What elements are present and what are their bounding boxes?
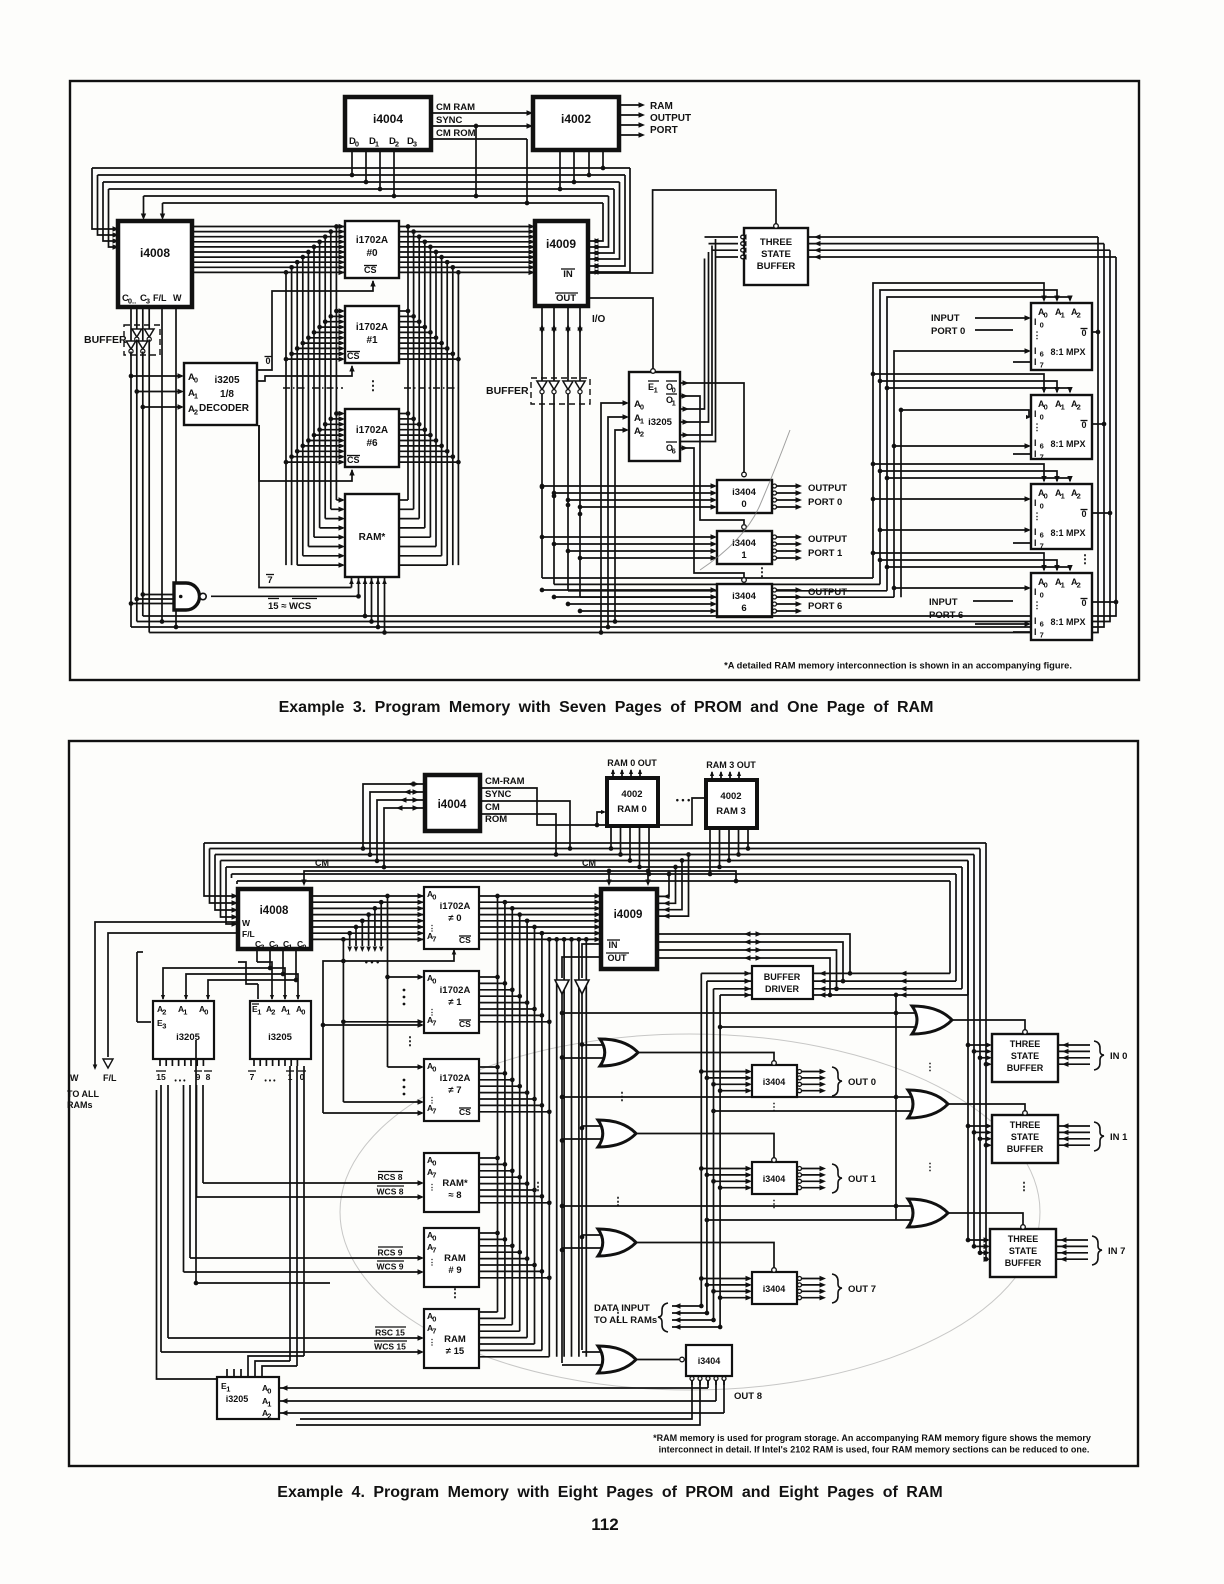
svg-text:OUT 7: OUT 7 — [848, 1284, 876, 1295]
wire rail WCS8 — [196, 1085, 198, 1197]
wire SYNC — [431, 125, 533, 127]
RAM bank 4002 RAM 3 — [706, 780, 757, 828]
wire i4004 D1 ex4 — [370, 792, 425, 855]
svg-text:≠ 7: ≠ 7 — [448, 1085, 461, 1096]
wire TSB right line 1 — [808, 243, 1104, 245]
wire i4009 OUT to E1 — [588, 298, 653, 369]
wire decoder0 rail bend — [255, 1361, 290, 1369]
wire i3404 OUT1 out 2 — [798, 1179, 802, 1183]
wire rail to 1702A#1 row 3 — [320, 326, 343, 328]
svg-text:0: 0 — [432, 1065, 436, 1074]
svg-text:PORT 6: PORT 6 — [929, 610, 963, 621]
wire left rail 7 — [296, 262, 298, 565]
wire RAM0 stub 3 — [639, 826, 641, 867]
wire bottom long line 1 — [143, 257, 1116, 616]
wire right rail 2 — [418, 237, 420, 519]
wire i3404 OUT0 out 1 — [798, 1076, 802, 1080]
i3205 bottom top pin 2 — [240, 1369, 242, 1377]
wire RAM out row 5 — [399, 546, 436, 548]
wire i4002 out 4 — [619, 134, 641, 136]
wire rail to 1702A#1 row 4 — [314, 331, 343, 333]
svg-text:112: 112 — [591, 1515, 618, 1534]
wire RAM8 out 1 — [479, 1163, 505, 1165]
wire PROM7 out 3 — [479, 1085, 520, 1087]
wire CM stub RAM0 — [597, 812, 604, 825]
svg-text:CM ROM: CM ROM — [436, 128, 476, 139]
svg-text:• • •: • • • — [264, 1078, 276, 1085]
svg-text:1: 1 — [375, 140, 379, 149]
wire MPX4 A0 feed — [873, 553, 1044, 570]
wire RAM0 out arrow 1 — [621, 770, 623, 778]
wire O6 to i3404-6 strobe — [680, 448, 744, 577]
wire C3 pin down — [256, 949, 258, 962]
svg-text:I: I — [1034, 527, 1037, 537]
wire ex4 right rail col 0 — [497, 896, 499, 1312]
wire MPX2 I0 — [901, 410, 1029, 417]
wire 1702A#6 out row 3 — [399, 429, 425, 431]
wire A2 into decoder — [143, 406, 182, 408]
svg-text:0: 0 — [1044, 311, 1048, 320]
wire buffer driver row right 2 — [813, 988, 962, 990]
wire ex4 address row 2 — [311, 907, 599, 909]
wire MPX rail A0 — [873, 283, 1044, 578]
interface i4008 — [118, 221, 192, 307]
svg-text:PORT 0: PORT 0 — [808, 497, 842, 508]
wire 1702A#6 out row 5 — [399, 440, 436, 442]
svg-text:⋮: ⋮ — [428, 1008, 436, 1017]
wire 1702A#6 out row 0 — [399, 413, 408, 415]
output i3404 OUT 8 — [686, 1345, 732, 1376]
wire MPX3 I0 — [873, 498, 1029, 500]
wire i4009 io line 3 — [657, 958, 830, 995]
wire I/O rail 0 — [541, 306, 543, 578]
svg-text:i4009: i4009 — [614, 909, 643, 921]
wire rail968 end — [967, 861, 969, 996]
svg-text:2: 2 — [395, 140, 399, 149]
wire i4002 stub 2 — [588, 150, 590, 175]
svg-text:⋮: ⋮ — [925, 1062, 935, 1073]
wire to i3404-0 input 1 — [554, 492, 715, 494]
wire i4002 stub 3 — [602, 150, 604, 168]
wire MPX4 A1 feed — [880, 560, 1057, 570]
output port i3404 0 — [717, 480, 772, 513]
wire I/O long line 1 — [554, 583, 880, 585]
wire E1 long rail — [195, 1040, 197, 1283]
wire C1 rail — [136, 307, 138, 329]
wire out8 A1 line — [296, 1381, 700, 1425]
wire MPX rail A2 — [887, 297, 1070, 591]
wire ex4 right rail 0 — [985, 843, 987, 1259]
wire RAM3 out arrow 0 — [711, 772, 713, 780]
wire TSB IN 7 ext 2 — [1056, 1252, 1088, 1254]
wire I/O rail 2 — [567, 306, 569, 591]
wire buffer tri rail 2 — [581, 994, 583, 1350]
svg-text:⋮: ⋮ — [533, 1181, 544, 1193]
svg-text:8:1 MPX: 8:1 MPX — [1050, 347, 1085, 357]
svg-text:i3205: i3205 — [226, 1394, 249, 1404]
wire decoder out 1 to CS#1 — [257, 366, 352, 381]
svg-text:i1702A: i1702A — [440, 1073, 471, 1084]
wire rail to RAM row 7 — [297, 564, 343, 566]
wire decoder out 0 to CS#0 — [257, 281, 373, 370]
wire out rail 0 — [700, 973, 702, 1306]
wire i3404 OUT7 out 3 — [798, 1296, 802, 1300]
multiplexer 8:1 MPX 1 — [1031, 303, 1092, 370]
wire TSB left input 1 — [709, 243, 739, 245]
wire ex4 bus left wrap 1 — [210, 849, 237, 904]
brace OUT 0 — [832, 1067, 842, 1096]
wire NAND output — [211, 595, 359, 597]
wire rail to 1702A#6 row 9 — [286, 461, 343, 463]
svg-text:I: I — [1034, 498, 1037, 508]
wire i3404-1 out 1 — [773, 542, 777, 546]
wire I/O long line 2 — [568, 590, 887, 592]
wire MPX3 I7 stub — [1013, 542, 1031, 544]
wire RAM bottom pin 6 — [384, 577, 386, 633]
interface i4009 — [535, 221, 588, 306]
svg-text:PORT: PORT — [650, 125, 678, 136]
wire top bus left wrap 0 — [92, 168, 117, 229]
wire rail to 1702A#1 row 6 — [303, 342, 343, 344]
wire MPX3 A1 feed — [880, 471, 1057, 481]
svg-text:7: 7 — [432, 1246, 436, 1255]
PROM i1702A #1 — [345, 306, 399, 363]
wire RAM3 out arrow 2 — [729, 772, 731, 780]
wire to i3404-0 input 3 — [580, 506, 715, 508]
svg-text:0: 0 — [1081, 328, 1086, 338]
wire buffer driver row right 1 — [813, 980, 956, 982]
wire O0 to i3404-0 strobe — [680, 383, 744, 472]
wire MPX rail extra — [900, 410, 902, 597]
wire RAM8 out 7 — [479, 1202, 549, 1204]
wire or to TSB IN 0 — [952, 1020, 1025, 1030]
svg-text:i4008: i4008 — [140, 246, 170, 260]
wire F/L rail — [161, 307, 163, 622]
wire CS0 feed — [343, 950, 454, 961]
wire rail to 1702A#1 row 7 — [297, 347, 343, 349]
svg-text:i4002: i4002 — [561, 112, 591, 126]
svg-text:1: 1 — [286, 1008, 290, 1017]
wire out8 A0 line — [300, 1381, 692, 1419]
wire i4009 right row 3 — [657, 855, 689, 917]
svg-text:OUT: OUT — [556, 293, 576, 304]
wire ex4 bus left wrap 3 — [221, 861, 237, 918]
svg-text:⋮: ⋮ — [449, 1286, 461, 1300]
buffer triangle 1 — [126, 341, 136, 349]
svg-text:i1702A: i1702A — [356, 322, 388, 333]
or gate left 1 — [598, 1120, 636, 1147]
wire MPX rail A1 — [880, 290, 1057, 584]
svg-text:RAM: RAM — [444, 1334, 466, 1345]
wire PROM7 out 4 — [479, 1092, 527, 1094]
decoder left pin 0 — [159, 1059, 161, 1066]
wire buffer driver row right 0 — [813, 972, 950, 974]
wire rail to 1702A#1 row 1 — [331, 315, 343, 317]
svg-text:F/L: F/L — [242, 929, 255, 939]
wire ex4 bus row 6 — [237, 880, 950, 882]
svg-text:DATA INPUT: DATA INPUT — [594, 1303, 650, 1314]
svg-text:0: 0 — [265, 356, 270, 366]
svg-text:7: 7 — [1040, 361, 1044, 370]
wire top bus right wrap 2 — [590, 182, 620, 259]
wire or to i3404 OUT 0 strobe — [638, 1053, 774, 1062]
svg-text:4002: 4002 — [720, 791, 741, 802]
svg-text:IN: IN — [609, 940, 618, 950]
svg-text:1: 1 — [226, 1385, 230, 1394]
wire NAND input 3 — [131, 603, 174, 605]
decoder left pin 1 — [165, 1059, 167, 1066]
svg-text:7: 7 — [250, 1072, 255, 1082]
wire 1702A#6 out row 7 — [399, 450, 447, 452]
wire ex4 address row 5 — [311, 926, 599, 928]
svg-text:I: I — [1034, 538, 1037, 548]
wire RAM bottom pin 4 — [371, 577, 373, 622]
svg-text:6: 6 — [1040, 442, 1044, 451]
svg-text:BUFFER: BUFFER — [1007, 1144, 1044, 1154]
svg-text:i3404: i3404 — [763, 1284, 786, 1294]
svg-text:CS: CS — [364, 265, 377, 275]
wire i3404-6 out 1 — [773, 595, 777, 599]
svg-text:i3404: i3404 — [763, 1174, 786, 1184]
wire PROM7 out 2 — [479, 1079, 512, 1081]
svg-text:1: 1 — [741, 550, 747, 561]
dash-dot separator right — [404, 387, 462, 389]
RAM bank 4002 RAM 0 — [607, 778, 658, 826]
wire i4002 out 3 — [619, 124, 641, 126]
wire i3404 OUT0 in 1 — [707, 1077, 750, 1079]
wire TSB IN 0 in 0 — [968, 1044, 990, 1046]
svg-text:⋮: ⋮ — [428, 1096, 436, 1105]
svg-text:BUFFER: BUFFER — [1005, 1258, 1042, 1268]
svg-text:i1702A: i1702A — [440, 901, 471, 912]
svg-text:i4009: i4009 — [546, 237, 576, 251]
wire RAM out row 6 — [399, 555, 442, 557]
svg-text:SYNC: SYNC — [436, 115, 463, 126]
wire rail to 1702A#1 row 9 — [286, 358, 343, 360]
svg-text:SYNC: SYNC — [485, 789, 512, 800]
brace IN 1 — [1094, 1122, 1104, 1151]
wire RAM3 stub 4 — [747, 828, 749, 849]
wire mid3205 A2 in — [615, 430, 627, 622]
wire bottom long line 3 — [131, 244, 1104, 627]
wire bus drop to i4008 top b — [162, 203, 164, 218]
wire rail to RAM row 3 — [320, 527, 343, 529]
wire rail RCS9 — [189, 1085, 191, 1258]
svg-text:*A detailed RAM memory interco: *A detailed RAM memory interconnection i… — [724, 661, 1072, 671]
wire i3404 OUT0 out 0 — [798, 1070, 802, 1074]
wire RAM15 out 1 — [479, 1317, 505, 1319]
wire RAM0 out arrow 0 — [612, 770, 614, 778]
decoder i3205 bottom — [217, 1377, 279, 1419]
wire ex4 right rail col 1 — [504, 902, 506, 1318]
wire I/O long line 3 — [580, 596, 894, 598]
wire CM line — [304, 871, 736, 884]
svg-text:1: 1 — [183, 1008, 187, 1017]
svg-text:RAM: RAM — [650, 101, 673, 112]
frame example 3 — [70, 81, 1139, 680]
svg-text:≠ 15: ≠ 15 — [446, 1346, 465, 1357]
wire i3404 OUT0 out 3 — [798, 1089, 802, 1093]
buffer dashed box right — [531, 378, 590, 404]
wire i3404 OUT0 out 2 — [798, 1082, 802, 1086]
decoder i3205 E1b ex4 — [250, 1001, 311, 1059]
wire TSB IN 7 ext 0 — [1056, 1239, 1088, 1241]
i3205 bottom top pin 4 — [254, 1369, 256, 1377]
wire right rail 4 — [429, 247, 431, 537]
wire RAM0 stub 2 — [629, 826, 631, 861]
wire 1702A#1 out row 4 — [399, 331, 430, 333]
wire RAM0 stub 4 — [648, 826, 650, 874]
PROM i1702A #0 ex4 — [424, 887, 479, 949]
svg-text:0: 0 — [302, 943, 306, 952]
RAM #8 ex4 — [424, 1153, 479, 1212]
wire PROM1 out 2 — [479, 989, 512, 991]
wire C0 pin down — [295, 949, 297, 980]
svg-text:7: 7 — [432, 935, 436, 944]
wire PROM1 out 6 — [479, 1014, 542, 1016]
wire ex4 right rail 4 — [961, 867, 963, 989]
wire MPX4 I7 stub — [1013, 631, 1031, 633]
svg-text:1: 1 — [654, 386, 658, 395]
wire address bus row 9 — [192, 271, 533, 273]
output i3404 OUT 0 — [752, 1065, 797, 1097]
wire W rail — [175, 307, 177, 627]
svg-text:OUTPUT: OUTPUT — [808, 587, 847, 598]
wire PROM7 out 6 — [479, 1104, 542, 1106]
wire i4004 D3 stub — [393, 150, 395, 196]
wire top bus line 5 — [163, 202, 604, 204]
wire rail to 1702A#6 row 5 — [308, 440, 343, 442]
svg-text:⋮: ⋮ — [428, 924, 436, 933]
svg-text:0: 0 — [741, 499, 746, 510]
wire RAM15 out 2 — [479, 1324, 512, 1326]
wire to i3404-6 input 2 — [568, 603, 715, 605]
svg-text:⋮: ⋮ — [756, 565, 768, 579]
wire MPX2 A1 feed — [880, 381, 1057, 392]
ellipsis PROM1 pins — [403, 989, 406, 992]
wire RCS8 — [203, 1182, 422, 1184]
wire mid3205 A0 in — [601, 403, 627, 633]
wire or left 1 input 1 — [582, 1125, 601, 1127]
svg-text:6: 6 — [672, 447, 676, 456]
wire address bus row 7 — [192, 261, 533, 263]
wire data input 1 — [672, 1312, 707, 1314]
wire 1702A#6 out row 9 — [399, 461, 458, 463]
svg-text:CS: CS — [347, 455, 360, 465]
or gate right 2 — [908, 1199, 948, 1227]
svg-text:W: W — [70, 1073, 79, 1083]
wire left rail 4 — [313, 247, 315, 537]
wire CM branch to i4009 — [647, 871, 649, 884]
svg-text:DECODER: DECODER — [199, 403, 250, 414]
wire TSB IN 1 ext 3 — [1058, 1144, 1090, 1146]
svg-text:I: I — [1034, 346, 1037, 356]
svg-text:i3404: i3404 — [698, 1356, 721, 1366]
svg-text:0: 0 — [204, 1008, 208, 1017]
wire ex4 bus row 3 — [221, 860, 969, 862]
wire to i3404-1 input 3 — [580, 557, 715, 559]
wire ex4 right rail col 5 — [534, 927, 536, 1344]
wire left rail 0 — [335, 227, 337, 501]
wire address bus row 3 — [192, 241, 533, 243]
wire i3404 OUT1 out 3 — [798, 1186, 802, 1190]
svg-text:STATE: STATE — [761, 249, 791, 260]
svg-text:8:1 MPX: 8:1 MPX — [1050, 528, 1085, 538]
wire TSB right line 0 — [808, 236, 1098, 238]
svg-text:i4004: i4004 — [373, 112, 403, 126]
svg-text:3: 3 — [162, 1022, 166, 1031]
svg-text:⋮: ⋮ — [404, 1034, 416, 1048]
brace data input — [658, 1303, 668, 1332]
svg-text:RAM 3: RAM 3 — [716, 806, 746, 817]
svg-text:PORT 0: PORT 0 — [931, 326, 965, 337]
svg-text:⋮: ⋮ — [1079, 552, 1091, 566]
svg-text:THREE: THREE — [1010, 1120, 1041, 1130]
wire RAM8 out 5 — [479, 1189, 535, 1191]
scan artifact ellipse — [340, 1034, 1040, 1390]
svg-text:2: 2 — [271, 1008, 275, 1017]
svg-text:0: 0 — [1040, 591, 1044, 600]
svg-text:WCS 8: WCS 8 — [377, 1187, 404, 1197]
wire 1702A#6 out row 2 — [399, 423, 419, 425]
wire to i3404-0 input 2 — [568, 499, 715, 501]
wire i4009 io line 2 — [657, 950, 837, 989]
wire RAM8 out 0 — [479, 1157, 498, 1159]
wire RAM bottom pin 3 — [364, 577, 366, 616]
svg-text:I/O: I/O — [592, 314, 606, 325]
wire buffer driver row right 3 — [813, 994, 968, 996]
wire O4 to TSB rail — [680, 246, 712, 436]
wire out8 pin 2 — [706, 1377, 710, 1381]
wire or left 3 input 1 — [582, 1351, 601, 1353]
decoder right pin 2 — [265, 1059, 267, 1066]
wire rail to 1702A#6 row 7 — [297, 450, 343, 452]
wire or4 to out8 — [636, 1359, 679, 1361]
wire i3404-6 out 3 — [773, 609, 777, 613]
svg-text:2: 2 — [1077, 403, 1081, 412]
wire left rail 2 — [324, 237, 326, 519]
wire left rail 1 — [330, 232, 332, 510]
wire rail to 1702A#6 row 6 — [303, 445, 343, 447]
svg-text:I: I — [1034, 409, 1037, 419]
wire ex4 left rail 3 — [368, 915, 370, 946]
svg-text:i1702A: i1702A — [440, 985, 471, 996]
wire TSB right line 3 — [808, 256, 1116, 258]
wire RAM9 out 4 — [479, 1258, 527, 1260]
buffer dashed box left — [124, 325, 160, 355]
svg-text:IN 1: IN 1 — [1110, 1132, 1128, 1143]
wire ex4 right rail col 6 — [541, 933, 543, 1350]
wire i3404 OUT1 out 0 — [798, 1167, 802, 1171]
wire RAM15 out 3 — [479, 1330, 520, 1332]
svg-text:WCS 9: WCS 9 — [377, 1262, 404, 1272]
wire RAM9 out 7 — [479, 1277, 549, 1279]
decoder right pin 1 — [259, 1059, 261, 1066]
wire left rail 9 — [285, 272, 287, 565]
wire decoder0 rail a — [289, 1066, 291, 1361]
wire or right 0 in1 — [563, 1012, 915, 1014]
decoder i3205 E3 ex4 — [153, 1001, 214, 1059]
ellipsis PROM7 pins — [403, 1079, 406, 1082]
buffer triangle io 1 — [549, 381, 559, 390]
svg-text:IN 0: IN 0 — [1110, 1051, 1127, 1062]
svg-text:⋮: ⋮ — [1033, 600, 1042, 610]
svg-text:BUFFER: BUFFER — [1007, 1063, 1044, 1073]
svg-text:i3205: i3205 — [268, 1032, 292, 1043]
svg-text:1: 1 — [1061, 311, 1065, 320]
wire RAM8 out 3 — [479, 1176, 520, 1178]
wire buffer driver row left 2 — [714, 988, 753, 990]
